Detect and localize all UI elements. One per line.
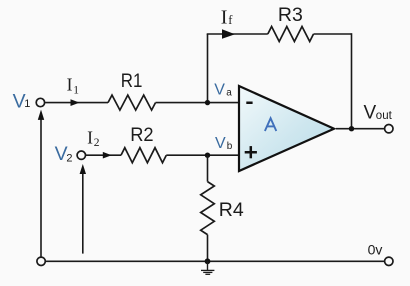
resistor R3 xyxy=(268,27,314,42)
svg-text:2: 2 xyxy=(66,153,72,165)
svg-text:R3: R3 xyxy=(278,4,303,26)
svg-text:out: out xyxy=(376,110,393,122)
svg-text:R1: R1 xyxy=(121,70,143,92)
label I2 xyxy=(87,128,100,150)
label If xyxy=(221,6,234,28)
wire feedback down to output node xyxy=(351,33,353,129)
svg-text:0v: 0v xyxy=(368,242,383,258)
wire R4 branch from Vb xyxy=(207,155,209,181)
node Va junction dot xyxy=(205,100,210,105)
op-amp plus sign xyxy=(245,146,257,158)
svg-text:f: f xyxy=(228,13,233,27)
current arrow I1 xyxy=(71,99,80,106)
wire V2 to R2 xyxy=(86,154,121,156)
svg-text:R4: R4 xyxy=(219,199,244,221)
label Va xyxy=(214,81,232,98)
current arrow I2 xyxy=(103,152,112,159)
node ground junction dot xyxy=(205,258,211,264)
terminal 0v xyxy=(385,257,393,265)
label Vb xyxy=(215,135,233,152)
wire feedback top left segment xyxy=(207,33,268,35)
resistor R2 xyxy=(121,148,166,163)
terminal V2 xyxy=(77,151,85,159)
svg-text:V: V xyxy=(214,81,225,98)
svg-text:V: V xyxy=(364,102,377,123)
wire node Va up to feedback xyxy=(207,34,209,103)
wire R4 to ground rail xyxy=(207,235,209,262)
node output junction dot xyxy=(349,126,354,131)
wire 0v rail xyxy=(45,260,384,262)
svg-text:a: a xyxy=(226,88,232,99)
node Vb junction dot xyxy=(205,153,210,158)
current arrow If xyxy=(222,29,235,39)
resistor R4 xyxy=(201,182,215,235)
svg-text:b: b xyxy=(227,141,233,152)
resistor R1 xyxy=(108,95,156,110)
voltage arrow V2 xyxy=(80,164,86,174)
op-amp minus sign xyxy=(246,102,252,105)
label Vout xyxy=(364,102,393,123)
wire V1 down to 0v rail xyxy=(40,119,42,257)
label A op-amp gain xyxy=(265,118,276,131)
ground xyxy=(201,261,214,274)
wire feedback top right segment xyxy=(314,33,352,35)
op-amp U1 xyxy=(239,86,334,171)
svg-text:R2: R2 xyxy=(130,124,153,146)
label V1 xyxy=(13,90,31,112)
svg-text:I: I xyxy=(221,6,228,28)
label V2 xyxy=(55,143,73,165)
wire R1 to op-amp inverting input xyxy=(156,102,240,104)
svg-text:1: 1 xyxy=(73,85,79,97)
wire op-amp output xyxy=(336,128,385,130)
wire V1 to R1 xyxy=(45,102,108,104)
terminal 0v rail left xyxy=(37,257,45,265)
svg-text:I: I xyxy=(67,75,73,95)
svg-text:I: I xyxy=(87,128,93,148)
wire R2 to op-amp non-inverting input xyxy=(166,154,239,156)
svg-text:2: 2 xyxy=(94,137,100,149)
voltage arrow V1 xyxy=(38,110,44,120)
terminal Vout xyxy=(385,125,393,133)
label I1 xyxy=(67,75,80,97)
voltage arrow line V2 xyxy=(82,174,84,254)
svg-text:V: V xyxy=(215,135,226,152)
terminal V1 xyxy=(36,98,44,106)
svg-text:1: 1 xyxy=(24,98,30,110)
